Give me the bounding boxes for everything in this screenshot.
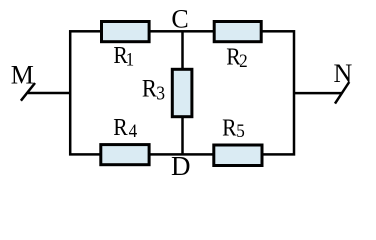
svg-text:5: 5 <box>236 120 245 141</box>
svg-text:R: R <box>113 114 128 140</box>
svg-text:4: 4 <box>129 120 138 141</box>
svg-text:D: D <box>171 151 191 181</box>
svg-text:3: 3 <box>156 83 165 105</box>
svg-text:N: N <box>334 59 353 88</box>
svg-text:R: R <box>142 75 157 103</box>
svg-text:R: R <box>222 115 237 141</box>
svg-text:2: 2 <box>239 50 248 71</box>
svg-text:C: C <box>171 5 188 34</box>
svg-text:1: 1 <box>126 49 135 70</box>
svg-text:M: M <box>11 61 34 90</box>
